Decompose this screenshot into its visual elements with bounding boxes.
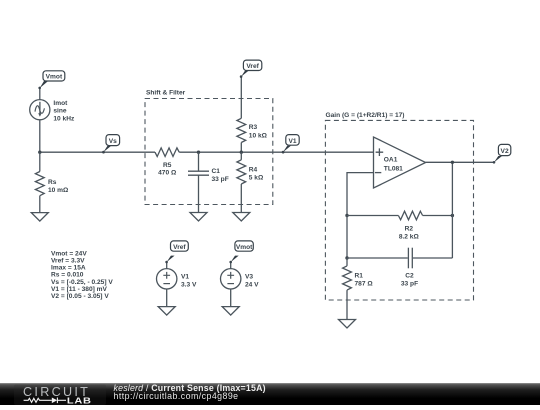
svg-text:10 kΩ: 10 kΩ <box>249 132 268 139</box>
resistor R3 <box>237 118 246 142</box>
wire Vref tag to resistor R3 <box>240 77 242 119</box>
wire capacitor C1 to ground <box>198 175 200 212</box>
svg-text:http://circuitlab.com/cp4g89e: http://circuitlab.com/cp4g89e <box>114 391 239 401</box>
wire node Vs to resistor Rs <box>39 152 41 171</box>
svg-text:Vmot = 24V: Vmot = 24V <box>51 250 87 257</box>
wire C2 row right <box>413 257 453 259</box>
ground (V1) <box>158 307 175 316</box>
svg-text:3.3 V: 3.3 V <box>181 281 197 288</box>
wire source V1 to ground <box>166 289 168 307</box>
dashed box Shift & Filter <box>145 99 273 205</box>
ground (C1) <box>190 213 207 222</box>
svg-text:10 kHz: 10 kHz <box>53 115 75 122</box>
ground (V3) <box>222 307 239 316</box>
nametag Vref (bottom) <box>167 241 189 262</box>
nametag Vs <box>103 135 119 153</box>
nametag V1 (node) <box>283 135 299 153</box>
svg-text:787 Ω: 787 Ω <box>355 281 374 288</box>
junction R2 right node <box>451 214 454 217</box>
svg-text:Vmot: Vmot <box>46 74 63 81</box>
nametag Vmot (bottom) <box>231 241 254 262</box>
svg-text:sine: sine <box>53 108 67 115</box>
wire Vmot tag to source V3 <box>230 262 232 269</box>
label R2 8.2 kOhm <box>399 225 420 240</box>
label Imot sine 10 kHz <box>53 100 75 122</box>
wire node to resistor R1 <box>346 258 348 266</box>
junction output node V2 <box>451 161 454 164</box>
voltage source V1 <box>157 269 177 289</box>
logo backdrop <box>14 385 106 406</box>
label R3 10 kOhm <box>249 124 268 139</box>
wire current source to node Vs <box>39 120 41 152</box>
dashed box Gain <box>325 120 473 300</box>
svg-text:Vmot: Vmot <box>236 244 253 251</box>
svg-text:V1: V1 <box>288 138 296 145</box>
label C1 33 pF <box>212 168 229 183</box>
svg-text:Vs = [-0.25, - 0.25] V: Vs = [-0.25, - 0.25] V <box>51 279 113 286</box>
ground (R4) <box>233 213 250 222</box>
nametag Vref (top) <box>241 60 262 77</box>
svg-text:V2 = [0.05 - 3.05] V: V2 = [0.05 - 3.05] V <box>51 293 109 300</box>
label OA1 TL081 <box>384 156 403 172</box>
svg-text:Rs: Rs <box>48 179 57 186</box>
label C2 33 pF <box>401 272 418 287</box>
svg-text:Vref = 3.3V: Vref = 3.3V <box>51 258 85 265</box>
resistor R2 <box>398 211 422 220</box>
logo resistor-diode glyph <box>24 398 66 404</box>
wire main node Vs horizontal right segment to op-amp + input <box>179 151 373 153</box>
svg-text:R5: R5 <box>163 162 172 169</box>
svg-text:V1: V1 <box>181 273 189 280</box>
svg-text:Shift & Filter: Shift & Filter <box>146 90 186 97</box>
svg-text:V1 = [11 - 380] mV: V1 = [11 - 380] mV <box>51 286 107 293</box>
svg-text:V2: V2 <box>501 148 509 155</box>
wire junction to resistor R4 <box>240 152 242 160</box>
svg-text:Rs = 0.010: Rs = 0.010 <box>51 272 84 279</box>
svg-text:10 mΩ: 10 mΩ <box>48 187 69 194</box>
svg-text:Vref: Vref <box>246 63 259 70</box>
voltage source V3 <box>221 269 241 289</box>
label R5 470 Ohm <box>158 162 177 177</box>
wire R2 row left <box>347 215 398 217</box>
svg-text:C2: C2 <box>405 272 414 279</box>
svg-text:R3: R3 <box>249 124 258 131</box>
wire output vertical to feedback <box>451 162 453 258</box>
svg-text:8.2 kΩ: 8.2 kΩ <box>399 234 420 241</box>
svg-text:470 Ω: 470 Ω <box>158 170 177 177</box>
wire feedback node down to C2 node <box>346 216 348 259</box>
op-amp OA1 <box>374 137 426 188</box>
svg-text:Imax = 15A: Imax = 15A <box>51 265 86 272</box>
annotation parameters text block <box>51 250 113 300</box>
current source Imot <box>30 100 50 120</box>
wire resistor R3 to junction <box>240 143 242 153</box>
wire main node Vs horizontal left segment <box>40 151 155 153</box>
wire R2 row right <box>423 215 453 217</box>
svg-text:24 V: 24 V <box>245 281 259 288</box>
svg-text:R1: R1 <box>355 272 364 279</box>
label R1 787 Ohm <box>355 272 374 287</box>
svg-text:Gain (G = (1+R2/R1) = 17): Gain (G = (1+R2/R1) = 17) <box>326 112 405 119</box>
svg-text:5 kΩ: 5 kΩ <box>249 175 264 182</box>
wire resistor Rs to ground <box>39 196 41 213</box>
footer bar <box>0 383 540 405</box>
junction node Vs <box>38 151 41 154</box>
svg-text:R2: R2 <box>405 225 414 232</box>
resistor Rs <box>35 172 44 196</box>
resistor R5 <box>155 148 179 157</box>
label V1 3.3 V <box>181 273 197 288</box>
wire C2 row left <box>347 257 408 259</box>
svg-text:V3: V3 <box>245 273 253 280</box>
junction C2 left node <box>345 256 348 259</box>
wire source V3 to ground <box>230 289 232 307</box>
nametag Vmot (top) <box>40 71 65 88</box>
wire op-amp inverting input <box>347 173 374 216</box>
svg-text:C1: C1 <box>212 168 221 175</box>
wire resistor R4 to ground <box>240 184 242 213</box>
svg-text:33 pF: 33 pF <box>401 281 418 288</box>
junction tag anchors <box>38 75 495 263</box>
wire Vmot tag to current source <box>39 88 41 100</box>
ground (R1) <box>339 320 356 329</box>
svg-text:Imot: Imot <box>53 100 68 107</box>
svg-text:33 pF: 33 pF <box>212 176 229 183</box>
capacitor C1 <box>188 171 209 175</box>
wire Vref tag to source V1 <box>166 262 168 269</box>
svg-text:LAB: LAB <box>67 396 92 405</box>
wire node to capacitor C1 <box>198 152 200 171</box>
label Rs 10 mOhm <box>48 179 69 194</box>
junction feedback node (R2 left) <box>345 214 348 217</box>
nametag V2 <box>494 144 511 162</box>
junction C1 node <box>197 151 200 154</box>
capacitor C2 <box>408 248 412 269</box>
label V3 24 V <box>245 273 259 288</box>
svg-text:TL081: TL081 <box>384 165 403 172</box>
svg-text:Vref: Vref <box>173 244 186 251</box>
label R4 5 kOhm <box>249 166 264 181</box>
junction R3/R4 node <box>240 151 243 154</box>
resistor R4 <box>237 160 246 184</box>
ground (Rs) <box>31 213 48 222</box>
wire resistor R1 to ground <box>346 290 348 319</box>
resistor R1 <box>343 266 352 290</box>
svg-text:OA1: OA1 <box>384 156 398 163</box>
wire op-amp output <box>426 161 494 163</box>
svg-text:R4: R4 <box>249 166 258 173</box>
svg-text:Vs: Vs <box>109 138 117 145</box>
